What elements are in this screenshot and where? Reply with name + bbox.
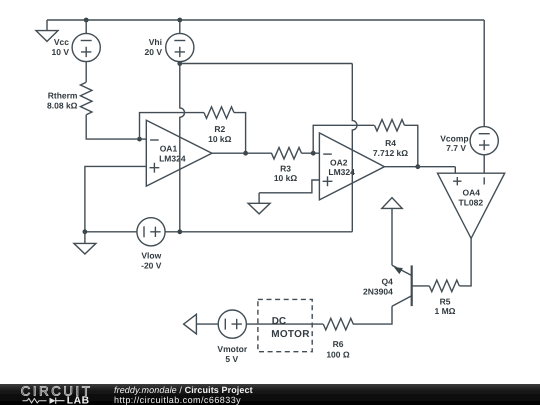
wire OA2 supply column with hop xyxy=(352,64,357,232)
svg-text:R3: R3 xyxy=(280,163,291,173)
resistor R3 10 k xyxy=(272,147,302,183)
svg-text:OA4: OA4 xyxy=(463,187,481,197)
svg-text:Vmotor: Vmotor xyxy=(217,344,247,354)
node junction Vlow at OA1 supply xyxy=(177,229,182,234)
wire Rtherm to OA1 inverting node xyxy=(86,115,139,139)
node junction Vlow left xyxy=(83,229,88,234)
voltage source Vcomp 7.7 V xyxy=(440,20,498,173)
voltage source Vlow -20 V xyxy=(137,218,165,271)
wire Vhi rail to OA2 supply xyxy=(180,62,352,64)
svg-text:OA2: OA2 xyxy=(330,157,348,167)
op-amp OA2 LM324 xyxy=(319,133,384,200)
resistor R4 7.712 k xyxy=(373,120,408,158)
resistor R2 10 k xyxy=(204,107,234,144)
voltage source Vcc 10 V xyxy=(52,33,101,61)
wire Vcc top stub xyxy=(85,20,87,33)
wire Vlow rail left xyxy=(85,231,137,233)
wire OA1 output to R3 xyxy=(212,152,272,154)
wire Vhi to supply column xyxy=(179,20,181,33)
svg-text:http://circuitlab.com/c66833y: http://circuitlab.com/c66833y xyxy=(114,395,241,405)
arrow flag above Q4 xyxy=(382,198,402,209)
svg-text:Q4: Q4 xyxy=(381,277,393,287)
svg-text:R5: R5 xyxy=(440,296,451,306)
svg-text:R2: R2 xyxy=(214,124,225,134)
node junction OA2 inverting input xyxy=(311,151,316,156)
svg-text:100 Ω: 100 Ω xyxy=(326,349,350,359)
resistor R6 100 ohm xyxy=(323,318,353,359)
svg-text:2N3904: 2N3904 xyxy=(363,286,393,296)
wire OA1 feedback left riser xyxy=(140,113,205,140)
wire Q4 collector to R6 xyxy=(353,306,392,324)
transistor Q4 2N3904 xyxy=(363,265,412,306)
svg-text:10 kΩ: 10 kΩ xyxy=(208,134,232,144)
ground top-left xyxy=(36,20,58,41)
wire OA1 minus pin xyxy=(140,138,147,140)
svg-text:OA1: OA1 xyxy=(160,144,178,154)
svg-text:LAB: LAB xyxy=(67,396,90,405)
svg-text:10 V: 10 V xyxy=(52,47,70,57)
node junction OA2 output xyxy=(415,164,420,169)
node junction OA1 output xyxy=(243,151,248,156)
wire top rail xyxy=(47,19,484,21)
svg-text:8.08 kΩ: 8.08 kΩ xyxy=(47,100,78,110)
wire Vcc to Rtherm xyxy=(85,62,87,82)
svg-text:10 kΩ: 10 kΩ xyxy=(274,173,298,183)
wire OA1 plus pin to Vlow rail xyxy=(85,166,146,231)
wire Vlow rail right to OA2 supply xyxy=(165,231,352,233)
op-amp OA1 LM324 xyxy=(146,120,212,186)
svg-text:7.7 V: 7.7 V xyxy=(446,143,466,153)
svg-text:LM324: LM324 xyxy=(159,153,186,163)
svg-text:-20 V: -20 V xyxy=(141,261,162,271)
ground below R3 xyxy=(248,193,270,214)
svg-text:LM324: LM324 xyxy=(328,167,355,177)
wire Q4 emitter riser xyxy=(391,208,393,265)
node junction below Vhi xyxy=(177,61,182,66)
wire R2 to OA1 output xyxy=(234,113,246,154)
resistor Rtherm 8.08 k xyxy=(47,82,92,114)
wire OA1 supply column with hop xyxy=(180,64,185,232)
DC motor dashed box xyxy=(258,299,312,351)
wire R5 to Q4 base xyxy=(413,285,430,287)
node junction OA1 inverting input xyxy=(137,137,142,142)
footer bar xyxy=(0,384,540,405)
svg-text:20 V: 20 V xyxy=(145,47,163,57)
svg-text:R6: R6 xyxy=(333,339,344,349)
ground below Vlow rail xyxy=(74,232,96,254)
svg-text:Vcc: Vcc xyxy=(54,37,69,47)
svg-text:1 MΩ: 1 MΩ xyxy=(435,306,456,316)
wire OA4 output to R5 xyxy=(459,238,471,286)
svg-text:MOTOR: MOTOR xyxy=(271,329,310,340)
svg-text:freddy.mondale / Circuits Proj: freddy.mondale / Circuits Project xyxy=(114,385,253,395)
wire R4 to OA2 output xyxy=(405,125,418,166)
svg-text:TL082: TL082 xyxy=(459,197,484,207)
node junction top rail at Vcc xyxy=(84,18,89,23)
svg-text:Vhi: Vhi xyxy=(149,37,162,47)
footer credits xyxy=(114,385,253,405)
svg-text:DC: DC xyxy=(272,316,286,327)
op-amp OA4 TL082 xyxy=(438,173,505,238)
wire Vmotor through motor to R6 xyxy=(247,323,324,325)
resistor R5 1 M xyxy=(429,280,459,316)
wire OA2 output to OA4 xyxy=(384,167,455,174)
CircuitLab logo xyxy=(21,384,93,405)
node junction top rail at Vhi xyxy=(177,18,182,23)
voltage source Vhi 20 V xyxy=(145,33,194,61)
wire OA2 feedback riser xyxy=(313,125,374,153)
svg-text:5 V: 5 V xyxy=(225,354,238,364)
svg-text:Vlow: Vlow xyxy=(141,250,161,260)
wire R3 to OA2 inverting node xyxy=(302,152,320,154)
wire OA2 plus pin to ground xyxy=(259,180,319,193)
svg-text:R4: R4 xyxy=(385,138,396,148)
svg-text:Rtherm: Rtherm xyxy=(48,91,78,101)
arrow flag left of Vmotor xyxy=(184,314,219,334)
svg-text:7.712 kΩ: 7.712 kΩ xyxy=(373,148,408,158)
svg-text:Vcomp: Vcomp xyxy=(440,133,468,143)
voltage source Vmotor 5 V xyxy=(217,310,247,364)
